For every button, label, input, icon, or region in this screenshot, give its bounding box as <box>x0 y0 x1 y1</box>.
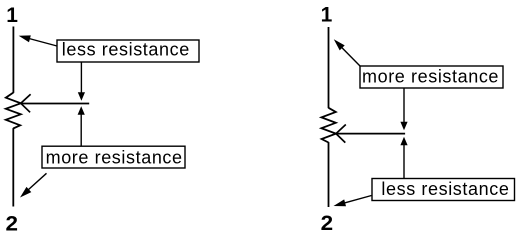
annotation arrow: more resistance to terminal 2 wire (left) <box>20 173 47 197</box>
svg-text:2: 2 <box>321 212 334 235</box>
wiper arrow of R1 (open arrowhead pointing into resistor) <box>21 94 31 112</box>
svg-text:less resistance: less resistance <box>381 179 509 199</box>
svg-text:1: 1 <box>321 4 333 27</box>
annotation arrow: more resistance box down to wiper (right, filled head) <box>400 88 407 130</box>
annotation box "more resistance" (left) <box>42 146 185 168</box>
svg-text:more resistance: more resistance <box>46 148 183 168</box>
wire: right top terminal to potentiometer R2 <box>328 27 330 108</box>
svg-text:2: 2 <box>6 212 19 235</box>
annotation arrow: more resistance to terminal 1 wire (right) <box>334 39 361 66</box>
svg-text:less resistance: less resistance <box>62 40 190 60</box>
annotation box "less resistance" (right) <box>372 179 515 201</box>
wire: R1 wiper horizontal lead <box>21 103 89 105</box>
wire: potentiometer R1 to bottom terminal 2 <box>12 128 14 206</box>
svg-text:1: 1 <box>6 4 18 27</box>
wire: potentiometer R2 to bottom terminal 2 <box>328 142 330 207</box>
annotation arrow: less resistance box down to wiper (left, filled head) <box>78 62 85 101</box>
annotation arrow: more resistance box up to wiper (left, filled head) <box>78 106 85 146</box>
annotation box "less resistance" (left) <box>57 40 199 62</box>
wire: left top terminal to potentiometer R1 <box>12 27 14 93</box>
wiper arrow of R2 (open arrowhead pointing into resistor) <box>336 125 346 143</box>
wire: R2 wiper horizontal lead <box>336 133 405 135</box>
annotation arrow: less resistance box up to wiper (right, filled head) <box>400 137 407 179</box>
potentiometer R1 (zigzag resistor body) <box>6 93 21 129</box>
annotation arrow: less resistance to terminal 1 wire (left) <box>19 35 57 46</box>
annotation box "more resistance" (right) <box>360 66 503 88</box>
potentiometer R2 (zigzag resistor body) <box>321 108 336 143</box>
svg-text:more resistance: more resistance <box>362 67 499 87</box>
annotation arrow: less resistance to terminal 2 wire (right) <box>334 196 372 207</box>
